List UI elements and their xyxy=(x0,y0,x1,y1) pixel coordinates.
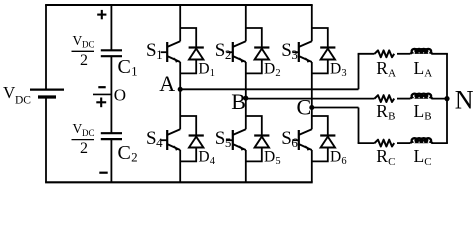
svg-text:L: L xyxy=(414,146,425,166)
svg-text:1: 1 xyxy=(156,47,163,62)
svg-text:D: D xyxy=(198,149,209,166)
svg-text:C: C xyxy=(424,156,431,168)
wire: node C down to lower transistor S6 xyxy=(311,108,313,130)
polarity mark - (bottom of C2) xyxy=(99,172,107,174)
transistor S4 (IGBT) gate lead xyxy=(161,139,168,141)
circuit schematic: three-phase voltage source inverter with RL load xyxy=(0,0,474,188)
transistor S2 bar xyxy=(232,42,234,62)
polarity mark + (top of C1) xyxy=(97,14,106,16)
wire: S1 emitter down to node A xyxy=(179,62,181,89)
svg-text:4: 4 xyxy=(210,156,216,167)
svg-text:S: S xyxy=(215,128,226,149)
diode D1 triangle xyxy=(189,49,203,60)
node N junction dot xyxy=(444,96,449,101)
svg-text:S: S xyxy=(146,40,157,61)
diode D4 triangle xyxy=(189,137,203,148)
wire: S5 emitter down to bottom rail xyxy=(245,150,247,182)
svg-text:A: A xyxy=(159,71,175,96)
wire: diode D4 top jog xyxy=(180,116,196,136)
transistor S1 collector diagonal xyxy=(168,41,181,47)
svg-text:6: 6 xyxy=(341,156,346,167)
wire: S2 emitter down to node B xyxy=(245,62,247,98)
wire: phase C into load xyxy=(358,142,375,144)
transistor S3 (IGBT) gate lead xyxy=(292,51,299,53)
svg-text:C: C xyxy=(388,156,395,168)
svg-text:DC: DC xyxy=(82,128,95,138)
wire: diode D3 bottom jog xyxy=(312,60,328,74)
wire: phase A into load xyxy=(358,53,375,55)
svg-text:5: 5 xyxy=(225,135,232,150)
svg-text:3: 3 xyxy=(341,68,346,79)
svg-text:B: B xyxy=(424,111,431,123)
svg-text:O: O xyxy=(114,86,126,105)
svg-text:V: V xyxy=(73,33,83,48)
svg-text:S: S xyxy=(281,128,292,149)
diode D3 cathode bar xyxy=(320,46,335,48)
battery VDC long plate (+) xyxy=(30,88,64,90)
svg-text:D: D xyxy=(198,61,209,78)
wire: leg C collector drop from top rail xyxy=(311,5,313,41)
wire: LA to neutral bus xyxy=(432,53,448,55)
capacitor C1 xyxy=(101,49,122,51)
svg-text:DC: DC xyxy=(82,40,95,50)
battery VDC short plate (-) xyxy=(38,95,56,98)
svg-text:5: 5 xyxy=(275,156,280,167)
diode D4 cathode bar xyxy=(189,134,204,136)
wire: leg B collector drop from top rail xyxy=(245,5,247,41)
wire: LC to neutral bus xyxy=(432,142,448,144)
svg-text:B: B xyxy=(388,111,395,123)
wire: S4 emitter down to bottom rail xyxy=(179,150,181,182)
polarity mark + (top of C2) xyxy=(96,101,106,103)
svg-text:N: N xyxy=(455,85,474,114)
wire: LB to neutral bus xyxy=(432,98,448,100)
svg-text:1: 1 xyxy=(210,68,215,79)
transistor S3 collector diagonal xyxy=(299,41,312,47)
transistor S2 (IGBT) gate lead xyxy=(226,51,233,53)
wire: diode D4 bottom jog xyxy=(180,148,196,162)
svg-text:A: A xyxy=(424,68,432,80)
wire: phase A rise to load branch xyxy=(358,54,360,90)
svg-text:B: B xyxy=(231,89,246,114)
diode D1 cathode bar xyxy=(189,46,204,48)
svg-text:D: D xyxy=(264,149,275,166)
diode D6 triangle xyxy=(321,137,335,148)
svg-text:6: 6 xyxy=(291,135,298,150)
wire: leg A collector drop from top rail xyxy=(179,5,181,41)
transistor S6 emitter diagonal with arrow xyxy=(299,144,312,150)
svg-text:R: R xyxy=(376,101,388,121)
transistor S1 (IGBT) gate lead xyxy=(161,51,168,53)
wire: diode D6 bottom jog xyxy=(312,148,328,162)
transistor S3 emitter diagonal with arrow xyxy=(299,56,312,62)
transistor S6 bar xyxy=(298,130,300,150)
svg-text:R: R xyxy=(376,58,388,78)
wire: diode D1 bottom jog xyxy=(180,60,196,74)
svg-text:4: 4 xyxy=(156,135,163,150)
transistor S4 emitter diagonal with arrow xyxy=(168,144,181,150)
diode D5 cathode bar xyxy=(254,134,269,136)
wire: diode D5 top jog xyxy=(246,116,262,136)
resistor RB xyxy=(375,95,395,102)
wire: neutral bus vertical xyxy=(446,54,448,143)
transistor S5 (IGBT) gate lead xyxy=(226,139,233,141)
svg-text:3: 3 xyxy=(291,47,298,62)
wire: C1 to C2 (midpoint section) xyxy=(110,56,112,133)
svg-text:2: 2 xyxy=(131,149,138,164)
capacitor C2 xyxy=(101,132,122,134)
svg-text:S: S xyxy=(146,128,157,149)
inductor LB xyxy=(411,94,433,99)
svg-text:D: D xyxy=(264,61,275,78)
svg-text:2: 2 xyxy=(225,47,232,62)
wire: diode D6 top jog xyxy=(312,116,328,136)
svg-text:2: 2 xyxy=(275,68,280,79)
transistor S5 collector diagonal xyxy=(233,129,246,135)
diode D5 triangle xyxy=(255,137,269,148)
wire: RA to LA xyxy=(397,53,411,55)
svg-text:L: L xyxy=(414,101,425,121)
wire: phase A output run xyxy=(180,88,358,90)
svg-text:S: S xyxy=(281,40,292,61)
wire: C2 to bottom rail xyxy=(110,139,112,182)
transistor S4 bar xyxy=(166,130,168,150)
svg-text:2: 2 xyxy=(80,140,88,157)
resistor RA xyxy=(375,50,395,57)
transistor S1 emitter diagonal with arrow xyxy=(168,56,181,62)
inductor LC xyxy=(411,138,433,143)
wire: node B down to lower transistor S5 xyxy=(245,98,247,129)
resistor RC xyxy=(375,140,395,147)
polarity mark - (bottom of C1) xyxy=(98,86,105,88)
wire: phase B output run xyxy=(246,98,375,100)
inductor LA xyxy=(411,49,433,54)
transistor S3 bar xyxy=(298,42,300,62)
battery VDC positive lead wire xyxy=(45,5,47,90)
wire: S3 emitter down to node C xyxy=(311,62,313,108)
svg-text:S: S xyxy=(215,40,226,61)
svg-text:D: D xyxy=(330,61,341,78)
svg-text:C: C xyxy=(118,142,131,164)
svg-text:DC: DC xyxy=(15,94,31,106)
svg-text:2: 2 xyxy=(80,52,88,69)
wire: top rail to capacitor C1 xyxy=(110,5,112,50)
wire: phase C output run xyxy=(312,107,359,109)
node B junction dot xyxy=(243,96,248,101)
transistor S1 bar xyxy=(166,42,168,62)
wire: diode D5 bottom jog xyxy=(246,148,262,162)
wire: diode D3 top jog xyxy=(312,28,328,48)
transistor S4 collector diagonal xyxy=(168,129,181,135)
svg-text:C: C xyxy=(118,56,131,78)
transistor S6 collector diagonal xyxy=(299,129,312,135)
node A junction dot xyxy=(178,87,183,92)
svg-text:D: D xyxy=(330,149,341,166)
transistor S2 collector diagonal xyxy=(233,41,246,47)
diode D2 cathode bar xyxy=(254,46,269,48)
svg-text:A: A xyxy=(388,68,396,80)
transistor S5 emitter diagonal with arrow xyxy=(233,144,246,150)
wire: positive DC bus (top rail) xyxy=(45,4,313,6)
battery VDC negative lead wire xyxy=(45,97,47,182)
wire: diode D2 top jog xyxy=(246,28,262,48)
wire: phase C drop to load branch xyxy=(358,108,360,144)
wire: diode D2 bottom jog xyxy=(246,60,262,74)
wire: diode D1 top jog xyxy=(180,28,196,48)
diode D3 triangle xyxy=(321,49,335,60)
wire: S6 emitter down to bottom rail xyxy=(311,150,313,182)
wire: node A down to lower transistor S4 xyxy=(179,89,181,129)
svg-text:R: R xyxy=(376,146,388,166)
transistor S6 (IGBT) gate lead xyxy=(292,139,299,141)
svg-text:L: L xyxy=(414,58,425,78)
wire: negative DC bus (bottom rail) xyxy=(45,181,313,183)
diode D2 triangle xyxy=(255,49,269,60)
diode D6 cathode bar xyxy=(320,134,335,136)
node C junction dot xyxy=(309,105,314,110)
transistor S5 bar xyxy=(232,130,234,150)
svg-text:1: 1 xyxy=(131,63,138,78)
wire: RB to LB xyxy=(397,98,411,100)
wire: RC to LC xyxy=(397,142,411,144)
svg-text:V: V xyxy=(73,121,83,136)
transistor S2 emitter diagonal with arrow xyxy=(233,56,246,62)
node O tick mark xyxy=(93,93,111,95)
